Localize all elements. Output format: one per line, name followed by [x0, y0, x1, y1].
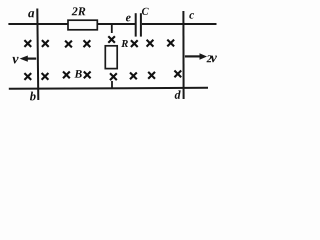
- resistor R bottom lead: [111, 81, 113, 88]
- capacitor C plates: [136, 13, 141, 36]
- label B (magnetic field): [74, 70, 81, 78]
- field mark x row2 col5 (below R): [110, 73, 117, 80]
- left rail a-b (sliding rod): [37, 9, 38, 101]
- label v: [12, 57, 18, 64]
- resistor R body: [105, 46, 117, 69]
- label C: [142, 8, 149, 15]
- label 2v: [207, 55, 217, 62]
- field mark x row1 col1: [24, 40, 31, 47]
- resistor R top lead: [111, 25, 113, 33]
- field mark x row1 col6: [131, 40, 138, 47]
- label 2R: [72, 7, 86, 15]
- field mark x row1 col2: [42, 40, 49, 47]
- label R: [121, 40, 128, 47]
- field mark x row2 col7: [148, 72, 155, 79]
- field mark x row2 col2: [42, 73, 49, 80]
- node a label: [28, 11, 34, 17]
- field mark x row1 col5 (above R): [108, 36, 115, 43]
- wire capacitor to right end (through node c): [142, 23, 217, 25]
- field mark x row2 col8: [174, 71, 181, 78]
- wire top rail segment a to 2R: [8, 23, 69, 25]
- velocity arrow v (left): [20, 56, 37, 62]
- field mark x row2 col3: [63, 72, 70, 79]
- wire 2R to capacitor C (node e): [97, 23, 135, 25]
- resistor 2R: [68, 20, 97, 30]
- node d label: [175, 90, 181, 98]
- velocity arrow 2v (right): [185, 53, 207, 59]
- field mark x row1 col3: [65, 41, 72, 48]
- field mark x row1 col8: [167, 40, 174, 47]
- field mark x row2 col4: [84, 72, 91, 79]
- field mark x row1 col4: [84, 40, 91, 47]
- node e label: [126, 16, 131, 22]
- node b label: [30, 92, 36, 101]
- field mark x row2 col1: [24, 73, 31, 80]
- field mark x row2 col6: [130, 73, 137, 80]
- right rail c-d (sliding rod): [182, 11, 184, 99]
- field mark x row1 col7: [147, 40, 154, 47]
- wire bottom rail b to d: [9, 88, 208, 89]
- node c label: [189, 13, 194, 19]
